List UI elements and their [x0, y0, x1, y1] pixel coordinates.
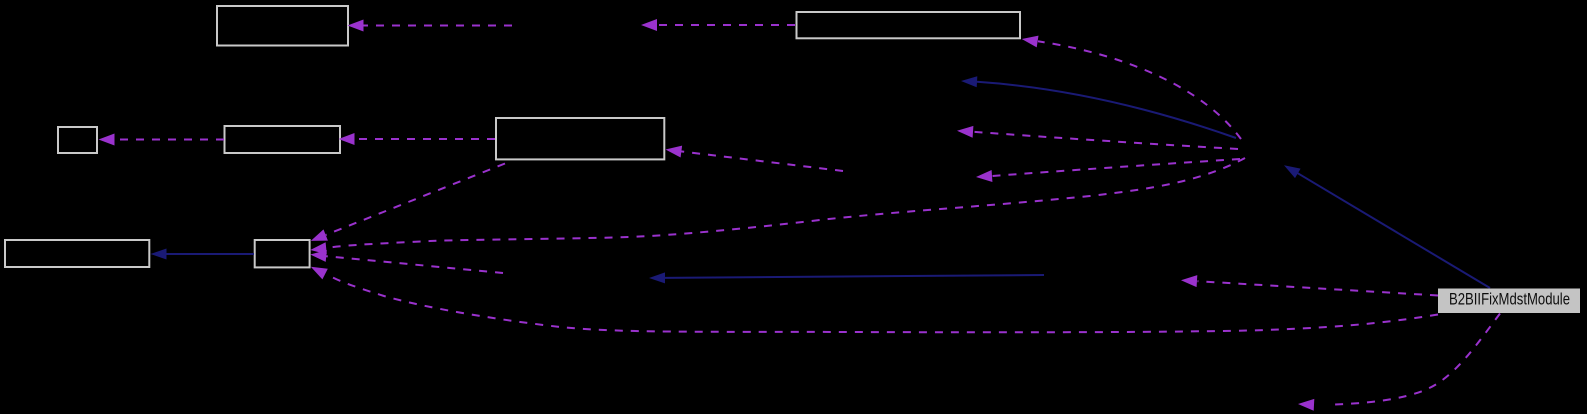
node box C (row 2)	[225, 126, 341, 153]
edge dashed: box C to small box (row 2 left)	[99, 134, 225, 146]
edge solid: small box E to box F (row 3 left)	[151, 249, 255, 260]
edge dashed: hub node to hidden node (upper middle)	[957, 126, 1238, 149]
edge dashed: box D (big row 2) to small box E corner	[311, 164, 505, 241]
edge dashed: hidden node to box D right edge	[666, 146, 844, 171]
edge dashed: hidden node to small box E (second middle arrow)	[310, 250, 503, 273]
edge dashed: main node to hidden node (bottom arc)	[1298, 314, 1500, 411]
edge dashed: hub node to hidden node (middle)	[976, 159, 1240, 182]
edge solid: main node to hub node (inheritance)	[1284, 165, 1490, 288]
node box A (top-left, empty label)	[217, 6, 348, 46]
edge dashed: box D to box C (row 2 middle)	[339, 133, 496, 145]
node box F (row 3 left)	[5, 240, 149, 267]
node small box E (row 3)	[255, 240, 310, 267]
node box D (row 2, two-line)	[496, 118, 664, 159]
edge dashed: hub node to small box E (row 3), long curve	[310, 158, 1245, 254]
edge dashed: main node to hidden node (left of it)	[1181, 275, 1438, 295]
svg-text:B2BIIFixMdstModule: B2BIIFixMdstModule	[1449, 291, 1570, 309]
node box B (top-middle, empty label)	[797, 12, 1021, 38]
edge solid: hidden node to hidden node (inheritance, middle)	[649, 272, 1044, 283]
edge dashed: hidden node to box A (top-left)	[348, 20, 513, 32]
edge solid: hub node to hidden node (inheritance, upper)	[961, 76, 1236, 138]
edge dashed: box B (top) to hidden node	[641, 19, 795, 31]
node B2BIIFixMdstModule (main, filled)	[1438, 289, 1580, 314]
node small box (row 2 far left)	[58, 127, 97, 153]
edge dashed: hub node to box B bottom-right corner	[1022, 36, 1241, 139]
edge dashed: main node to small box E, long bottom curve	[311, 267, 1438, 332]
